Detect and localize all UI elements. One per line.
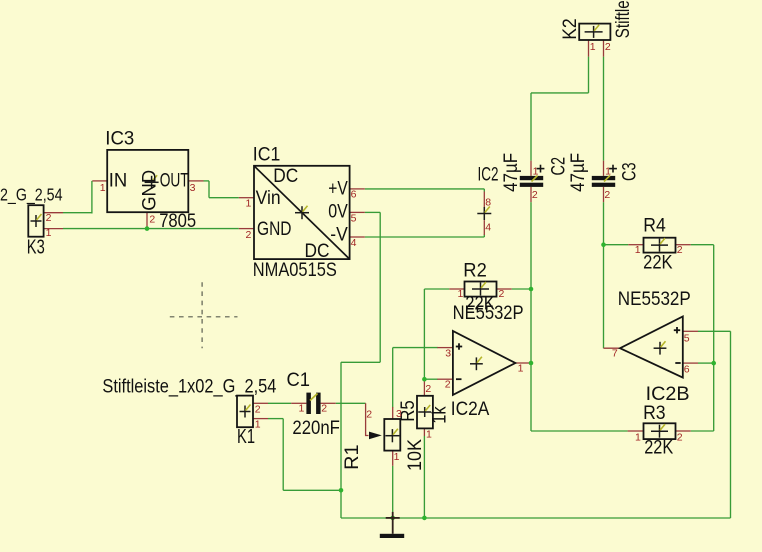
svg-text:1: 1 (635, 431, 641, 443)
svg-text:4: 4 (351, 237, 357, 249)
svg-text:Stiftleiste_1x02_G_2,54: Stiftleiste_1x02_G_2,54 (102, 375, 276, 397)
svg-text:IC3: IC3 (105, 128, 134, 149)
svg-text:NMA0515S: NMA0515S (253, 260, 337, 281)
svg-text:1: 1 (246, 198, 252, 210)
svg-text:4: 4 (485, 222, 491, 234)
svg-text:2: 2 (677, 431, 683, 443)
svg-text:7: 7 (612, 348, 618, 360)
svg-text:R4: R4 (643, 216, 666, 237)
svg-text:1: 1 (299, 402, 305, 414)
svg-text:1: 1 (255, 419, 261, 431)
svg-text:3: 3 (396, 408, 402, 420)
svg-text:NE5532P: NE5532P (618, 289, 691, 310)
svg-text:2: 2 (366, 408, 372, 420)
svg-text:1: 1 (46, 227, 52, 239)
svg-text:R2: R2 (463, 261, 487, 282)
svg-text:2: 2 (246, 229, 252, 241)
svg-text:C2: C2 (549, 157, 570, 176)
svg-text:DC: DC (273, 166, 298, 187)
svg-text:Vin: Vin (256, 188, 281, 209)
svg-text:2: 2 (321, 402, 327, 414)
svg-text:1k: 1k (430, 406, 451, 424)
svg-text:R1: R1 (342, 444, 363, 470)
svg-text:2: 2 (604, 189, 610, 201)
svg-text:GND: GND (257, 219, 292, 240)
svg-text:OUT: OUT (160, 170, 189, 191)
svg-text:6: 6 (351, 188, 357, 200)
svg-text:2: 2 (677, 244, 683, 256)
svg-text:DC: DC (305, 241, 330, 262)
svg-text:8: 8 (485, 196, 491, 208)
svg-text:GND: GND (140, 170, 161, 211)
svg-text:2: 2 (149, 213, 155, 225)
svg-text:5: 5 (684, 333, 690, 345)
svg-text:7805: 7805 (159, 211, 196, 232)
svg-text:3: 3 (190, 182, 196, 194)
svg-text:NE5532P: NE5532P (453, 303, 524, 324)
svg-text:-V: -V (330, 225, 348, 246)
svg-text:K2: K2 (560, 18, 581, 40)
svg-text:1: 1 (605, 166, 611, 178)
svg-text:2: 2 (445, 379, 451, 391)
svg-text:IN: IN (109, 170, 128, 191)
svg-text:1: 1 (426, 428, 432, 440)
svg-text:1: 1 (458, 288, 464, 300)
svg-text:2: 2 (499, 288, 505, 300)
svg-text:47µF: 47µF (501, 153, 522, 192)
svg-text:+V: +V (328, 178, 348, 199)
svg-text:6: 6 (684, 364, 690, 376)
svg-text:3: 3 (445, 348, 451, 360)
svg-text:5: 5 (351, 212, 357, 224)
svg-text:1: 1 (394, 451, 400, 463)
svg-text:IC2: IC2 (478, 165, 499, 186)
svg-text:47µF: 47µF (568, 153, 589, 192)
svg-text:2: 2 (425, 383, 431, 395)
svg-text:Stiftleiste_1x02_G_2,54: Stiftleiste_1x02_G_2,54 (613, 0, 634, 38)
svg-text:IC1: IC1 (253, 144, 280, 165)
svg-text:1: 1 (533, 166, 539, 178)
svg-text:0V: 0V (328, 202, 348, 223)
svg-text:220nF: 220nF (292, 418, 340, 439)
svg-text:1: 1 (635, 244, 641, 256)
svg-text:22K: 22K (644, 438, 673, 459)
svg-text:2: 2 (255, 404, 261, 416)
svg-text:R3: R3 (643, 403, 666, 424)
svg-text:IC2A: IC2A (451, 399, 490, 420)
svg-text:2: 2 (532, 189, 538, 201)
svg-text:2_G_2,54: 2_G_2,54 (0, 184, 63, 205)
svg-text:1: 1 (590, 41, 596, 53)
svg-text:2: 2 (46, 212, 52, 224)
svg-text:10K: 10K (405, 439, 426, 471)
svg-text:K1: K1 (237, 426, 255, 448)
svg-text:22K: 22K (643, 253, 673, 274)
svg-text:1: 1 (518, 363, 524, 375)
svg-text:2: 2 (605, 41, 611, 53)
svg-text:1: 1 (100, 182, 106, 194)
svg-text:C1: C1 (287, 370, 311, 391)
svg-text:K3: K3 (27, 236, 45, 258)
svg-text:C3: C3 (620, 163, 641, 182)
